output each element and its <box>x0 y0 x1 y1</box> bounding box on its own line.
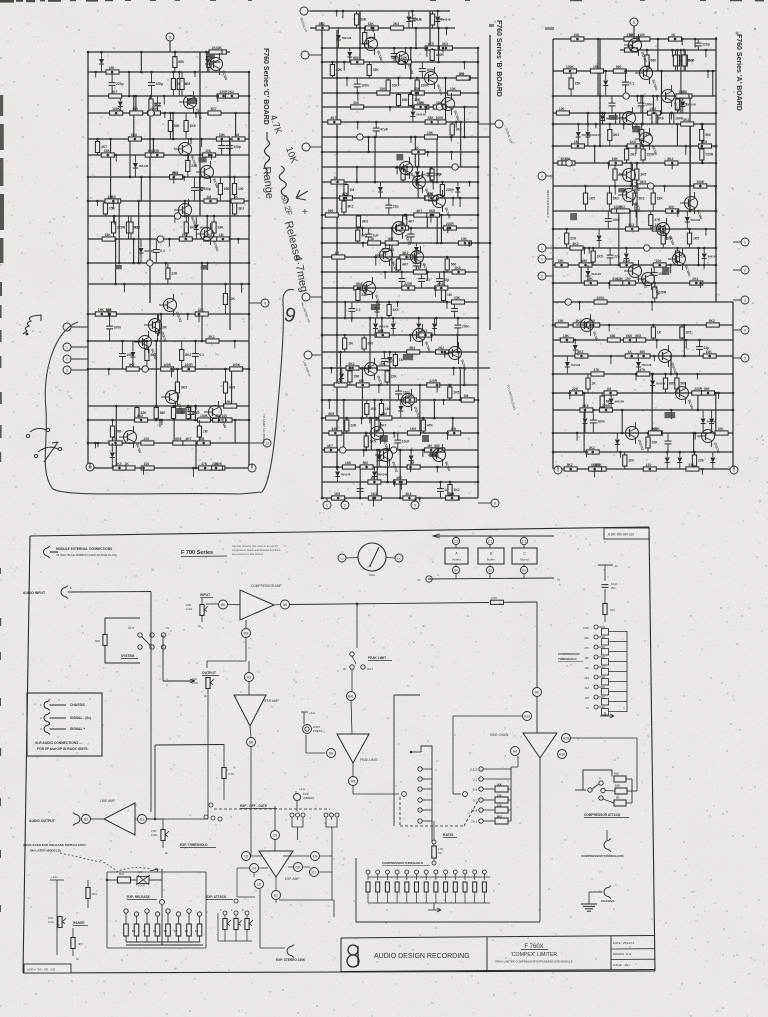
wire <box>152 139 154 155</box>
wire rail <box>88 215 249 217</box>
threshold pot 1 <box>366 870 370 874</box>
resistor RB38 <box>425 196 438 200</box>
dense label cluster <box>371 304 380 310</box>
resistor RC59 <box>230 367 243 371</box>
capacitor CB11 <box>382 248 389 250</box>
resistor RB53 <box>332 255 345 259</box>
resistor RA98 <box>715 431 728 435</box>
wire <box>155 341 157 420</box>
wire stub <box>431 335 433 341</box>
resistor RB15 <box>456 76 469 80</box>
wire <box>715 146 717 163</box>
wire stub <box>436 385 438 393</box>
resistor RC43 <box>179 237 192 241</box>
wire <box>340 352 342 385</box>
resistor RA89 <box>570 391 583 395</box>
release pot 3 <box>145 909 149 913</box>
resistor RC2 <box>173 57 177 68</box>
resistor RB108 <box>332 496 345 500</box>
threshold trim resistor <box>432 840 436 844</box>
exp amp C9 pin <box>271 831 280 840</box>
wire stub <box>569 393 571 399</box>
wire <box>359 11 361 62</box>
wire stub <box>168 239 170 247</box>
wire rail <box>322 47 478 49</box>
transistor QA15 <box>676 387 689 400</box>
resistor RA104 <box>564 467 577 471</box>
resistor RA100 <box>623 455 627 466</box>
resistor RA86 <box>586 378 590 389</box>
resistor RB76 <box>348 371 352 382</box>
resistor RC75 <box>109 441 122 445</box>
card B box <box>478 548 504 564</box>
resistor RA40 <box>694 184 707 188</box>
resistor RA63 <box>653 287 657 298</box>
title block frame <box>341 936 655 939</box>
wire stub <box>452 198 454 206</box>
resistor RC12 <box>225 94 238 98</box>
wire stub <box>362 228 364 235</box>
gate switch group 2 <box>324 813 328 817</box>
transistor QB13 <box>449 347 462 360</box>
wire stub <box>95 72 97 78</box>
wire stub <box>195 406 197 410</box>
resistor RB9 <box>430 50 434 61</box>
resistor RC38 <box>126 222 130 233</box>
wire stub <box>96 201 98 206</box>
wire <box>715 393 717 433</box>
resistor RB47 <box>396 226 409 230</box>
wire rail <box>553 247 716 249</box>
resistor RA87 <box>675 378 679 389</box>
resistor RC77 <box>197 441 210 445</box>
wire rail <box>322 77 478 79</box>
wire rail <box>88 176 249 178</box>
wire stub <box>696 374 698 379</box>
chassis ground symbol <box>581 903 597 905</box>
wire rail <box>553 70 716 72</box>
threshold pot 10 <box>453 870 457 874</box>
resistor RB3 <box>365 26 378 30</box>
capacitor CC7 <box>191 187 198 189</box>
wire rail <box>322 106 478 108</box>
resistor RB64 <box>387 305 391 316</box>
resistor RC84 <box>199 466 212 470</box>
capacitor CA10 <box>665 440 672 442</box>
wire <box>184 201 186 216</box>
resistor RA31 <box>700 149 704 160</box>
diode DB17 <box>398 406 403 411</box>
transistor QA1 <box>629 39 642 52</box>
wire <box>464 107 466 137</box>
wire compressor amp output rail <box>290 603 490 605</box>
wire stub <box>143 468 145 475</box>
resistor RA68 <box>594 300 607 304</box>
resistor RC39 <box>129 222 133 233</box>
resistor RB65 <box>452 300 465 304</box>
diode DB9 <box>414 247 419 252</box>
wire rail <box>88 405 249 407</box>
pin 2 <box>341 501 349 509</box>
ladder tap 4 <box>594 655 598 659</box>
wire rail <box>310 27 455 29</box>
threshold bank box <box>355 858 357 922</box>
wire stub <box>378 385 380 393</box>
resistor RB27 <box>450 124 454 135</box>
node <box>436 104 442 110</box>
resistor RB95 <box>432 448 445 452</box>
capacitor CA2 <box>622 81 629 83</box>
wire rail <box>322 287 478 289</box>
pin 8 <box>491 499 499 507</box>
ladder resistor 1K8 <box>602 699 609 706</box>
pin 4 <box>302 293 310 301</box>
transistor QB5 <box>400 162 413 175</box>
capacitor CC12 <box>187 411 194 413</box>
pin stub wire <box>733 241 741 243</box>
wire <box>460 122 462 167</box>
pin 6 <box>495 120 503 128</box>
wire <box>195 443 197 468</box>
release pot 1 <box>124 909 128 913</box>
wire stub <box>685 146 687 155</box>
wire stub <box>397 78 399 86</box>
wire stub <box>614 186 616 194</box>
resistor RA45 <box>583 193 587 204</box>
resistor RC33 <box>231 199 244 203</box>
range pot 10K LOG <box>58 917 62 928</box>
resistor RB34 <box>430 169 434 180</box>
resistor RA78 <box>623 338 636 342</box>
wire stub <box>635 374 637 380</box>
wire stub <box>192 468 194 477</box>
C board top pin wire <box>169 41 171 52</box>
diode DA19 <box>615 440 620 445</box>
transistor QB16 <box>371 427 384 440</box>
resistor RC30 <box>218 184 222 195</box>
diode DB13 <box>373 324 378 329</box>
resistor RB86 <box>326 416 339 420</box>
resistor RC44 <box>216 237 229 241</box>
wire stub <box>342 11 344 18</box>
exp stereo link jack <box>287 947 292 956</box>
pin 2 <box>741 266 749 274</box>
capacitor CB9 <box>365 233 372 235</box>
resistor RA41 <box>633 193 637 204</box>
capacitor CB23 <box>357 488 364 490</box>
resistor RC18 <box>184 121 188 132</box>
diode DA6 <box>685 217 690 222</box>
resistor 6K8 <box>118 877 131 883</box>
resistor RB40 <box>340 196 353 200</box>
wire <box>356 167 358 182</box>
wire selector to output pot arrow <box>163 679 195 683</box>
resistor RC46 <box>204 237 217 241</box>
pin 11 <box>166 33 174 41</box>
card C box <box>512 548 537 564</box>
A board top pin wire <box>633 26 635 39</box>
resistor RC51 <box>155 322 159 333</box>
resistor RB41 <box>342 201 346 212</box>
wire rail <box>553 432 733 434</box>
resistor RC81 <box>141 466 154 470</box>
wire stub <box>694 433 696 440</box>
resistor RA77 <box>560 338 573 342</box>
transistor QA16 <box>626 427 639 440</box>
resistor RB4 <box>316 26 329 30</box>
resistor RA14 <box>591 69 604 73</box>
ladder resistor 56K <box>602 639 609 646</box>
resistor RA93 <box>600 408 613 412</box>
peak limiter amp <box>337 734 369 763</box>
resistor RA106 <box>589 467 602 471</box>
pin stub wire <box>89 463 91 468</box>
A13 wire contact <box>453 793 461 795</box>
resistor RB19 <box>377 91 390 95</box>
resistor RA29 <box>641 149 645 160</box>
wire <box>129 139 131 177</box>
resistor RA35 <box>613 169 617 180</box>
node <box>566 160 572 166</box>
pin stub wire <box>633 26 635 39</box>
wire stub <box>718 393 720 399</box>
wire stub <box>469 182 471 187</box>
resistor RB20 <box>411 91 424 95</box>
attack pot 3 <box>245 911 249 915</box>
resistor RA39 <box>665 161 678 165</box>
resistor RB70 <box>343 338 347 349</box>
pin 1 <box>63 343 71 351</box>
resistor RC11 <box>109 94 122 98</box>
resistor RB103 <box>448 485 452 496</box>
wire stub <box>328 400 330 409</box>
wire <box>438 28 440 62</box>
resistor RA25 <box>681 122 694 126</box>
resistor RB28 <box>433 120 446 124</box>
wire rail <box>558 468 734 470</box>
wire stub <box>357 122 359 130</box>
wire stub <box>432 182 434 190</box>
attack loop wire <box>237 896 255 898</box>
resistor RC22 <box>216 137 229 141</box>
wire <box>399 450 401 498</box>
inner box around expander section <box>106 872 108 948</box>
right loop bus <box>320 855 333 857</box>
wire stub <box>419 498 421 502</box>
wire stub <box>207 263 209 270</box>
resistor RB105 <box>446 496 459 500</box>
diode DB21 <box>372 472 377 477</box>
transistor QA7 <box>623 189 636 202</box>
threshold pot 7 <box>424 870 428 874</box>
resistor RB91 <box>364 436 368 447</box>
resistor RA56 <box>675 251 679 262</box>
wire stub <box>450 137 452 142</box>
resistor RC66 <box>154 408 158 419</box>
resistor RC58 <box>161 367 174 371</box>
diode DA3 <box>600 116 605 121</box>
resistor RC42 <box>184 222 188 233</box>
wire <box>701 124 703 163</box>
wire rail <box>88 154 249 156</box>
wire switch to BAL <box>351 669 353 691</box>
resistor RC68 <box>135 418 148 422</box>
resistor RA18 <box>676 94 689 98</box>
capacitor CA7 <box>651 272 658 274</box>
wire stub <box>707 71 709 78</box>
wire stub <box>372 28 374 32</box>
pin stub wire <box>71 358 88 360</box>
resistor RB8 <box>425 46 438 50</box>
diode DB1 <box>406 17 411 22</box>
resistor RC73 <box>213 418 226 422</box>
resistor RA101 <box>692 455 696 466</box>
resistor RB100 <box>342 465 355 469</box>
node <box>647 183 653 189</box>
pin 2 <box>538 255 546 263</box>
resistor RC8 <box>180 79 184 90</box>
node <box>357 134 363 140</box>
wiper feed circle <box>353 793 399 795</box>
transistor QB14 <box>365 363 378 376</box>
wire <box>199 52 201 216</box>
resistor RA76 <box>633 338 646 342</box>
node <box>452 164 458 170</box>
resistor RC62 <box>223 382 227 393</box>
wire rail <box>553 185 716 187</box>
resistor RA48 <box>649 215 653 226</box>
exp amp (apex down) <box>259 851 293 877</box>
release pot 2 <box>134 912 138 916</box>
wire <box>343 400 345 450</box>
diode DB12 <box>432 324 437 329</box>
transistor QA10 <box>673 253 686 266</box>
attack resistor 10C <box>614 776 626 782</box>
wire stub <box>705 229 707 236</box>
resistor RB74 <box>385 371 389 382</box>
diode DA14 <box>650 381 655 386</box>
wire stub <box>610 356 612 364</box>
resistor RA83 <box>663 378 667 389</box>
resistor RB2 <box>430 14 434 25</box>
pin stub wire <box>71 369 88 371</box>
pin 11 <box>630 18 638 26</box>
wire <box>580 248 582 283</box>
wire <box>459 368 461 400</box>
wire rail <box>322 166 478 168</box>
wire <box>597 39 599 96</box>
wire rail <box>322 334 478 336</box>
node <box>157 236 163 242</box>
ladder tap 6 <box>594 675 598 679</box>
pin 5 <box>304 351 312 359</box>
wire <box>389 368 391 418</box>
release pot 6 <box>176 912 180 916</box>
wire stub <box>165 263 167 267</box>
wire stub <box>458 352 460 359</box>
resistor RB71 <box>407 350 420 354</box>
attack loop bracket <box>583 770 612 790</box>
resistor RC70 <box>198 418 211 422</box>
resistor RC24 <box>145 153 158 157</box>
wire <box>138 201 140 263</box>
ratio wire left <box>393 695 395 826</box>
wire stub <box>677 211 679 217</box>
drawing number box top right <box>604 528 649 539</box>
pin 2 <box>730 466 738 474</box>
wire stub <box>351 318 353 322</box>
attack resistor 10K <box>615 788 627 794</box>
A13 pin <box>523 712 532 721</box>
resistor RB17 <box>386 80 390 91</box>
pin stub wire <box>71 326 88 328</box>
resistor RA22 <box>556 111 569 115</box>
wire rail <box>322 351 478 353</box>
transistor QC5 <box>179 204 192 217</box>
capacitor CA4 <box>609 102 616 104</box>
wire rail <box>322 481 478 483</box>
wire stub <box>635 211 637 218</box>
wire <box>599 39 601 146</box>
wire stub <box>579 302 581 310</box>
threshold pot 2 <box>376 870 380 874</box>
resistor RA6 <box>625 48 638 52</box>
resistor RB72 <box>393 355 397 366</box>
gate switch group 1 <box>290 813 294 817</box>
resistor RA107 <box>643 467 656 471</box>
side chain stem wire <box>539 758 541 922</box>
resistor RA27 <box>700 130 704 141</box>
wire stub <box>670 113 672 120</box>
resistor RA42 <box>637 184 650 188</box>
wire stub <box>426 48 428 57</box>
transistor QA11 <box>629 265 642 278</box>
wire stub <box>701 469 703 475</box>
ladder tap 8 <box>594 695 598 699</box>
resistor RC25 <box>203 153 216 157</box>
wire <box>477 48 479 498</box>
wire <box>618 211 620 265</box>
wire rail <box>553 339 733 341</box>
resistor RA43 <box>651 193 655 204</box>
wire stub <box>108 369 110 375</box>
transistor QC11 <box>209 406 222 419</box>
resistor RB24 <box>416 105 429 109</box>
capacitor CB16 <box>451 308 458 310</box>
latch assy dashed bracket <box>116 868 150 872</box>
wire rail <box>322 61 478 63</box>
wire stub <box>113 216 115 225</box>
diode DA10 <box>586 271 591 276</box>
transistor QC10 <box>166 391 179 404</box>
transistor QB18 <box>433 449 446 462</box>
pin stub wire <box>326 498 328 501</box>
wire stub <box>453 368 455 376</box>
wire <box>381 318 383 335</box>
dense label cluster <box>609 115 618 120</box>
card pins <box>455 536 457 537</box>
resistor RC67 <box>135 408 139 419</box>
XLR legend box <box>27 693 102 756</box>
wire <box>229 139 231 330</box>
pin stub wire <box>546 175 553 177</box>
wire <box>365 433 367 450</box>
capacitor CC10 <box>192 353 199 355</box>
transistor QC8 <box>149 319 162 332</box>
block diagram outer border <box>30 527 649 536</box>
wire rail <box>553 324 733 326</box>
transistor QC9 <box>139 336 152 349</box>
